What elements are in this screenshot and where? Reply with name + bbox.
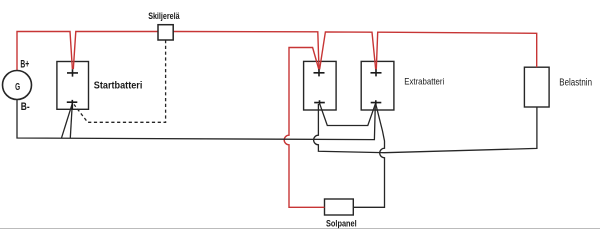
solar panel Solpanel box xyxy=(325,199,354,215)
wire: Extrabatteri 2 minus to Solpanel, hop over line B xyxy=(354,104,385,208)
wire: Extrabatteri 1 plus to Extrabatteri 2 plus (red) xyxy=(320,32,376,70)
svg-text:B-: B- xyxy=(21,101,30,113)
bottom border artifact line xyxy=(0,227,600,230)
wire: Startbatteri minus diagonal to bus (left) xyxy=(62,104,73,138)
Startbatteri plus terminal xyxy=(67,69,78,76)
svg-text:Solpanel: Solpanel xyxy=(326,218,357,228)
wire: generator B- down, negative bus line A to Extrabatteri 2 minus xyxy=(17,100,375,140)
Extrabatteri 2 plus terminal xyxy=(371,69,382,76)
wire: Startbatteri plus to Skiljerelä (red) xyxy=(73,32,158,70)
wire: Extrabatteri 1 minus to Belastnin bottom, hop over bus A xyxy=(314,104,537,153)
generator G circle xyxy=(3,71,32,100)
battery Startbatteri box xyxy=(57,62,89,110)
svg-text:Startbatteri: Startbatteri xyxy=(94,81,143,92)
wire: Solpanel plus to Extrabatteri 1 plus, hop over negative bus (red) xyxy=(284,48,324,208)
Extrabatteri 1 plus terminal xyxy=(314,69,325,76)
battery Extrabatteri 2 box xyxy=(361,61,394,110)
Startbatteri minus terminal xyxy=(67,100,78,110)
wire: Startbatteri minus diagonal to bus (right) xyxy=(70,104,72,138)
load Belastnin box xyxy=(524,67,549,107)
wire: Skiljerelä control (dashed) to Startbatteri minus xyxy=(74,40,166,122)
relay Skiljerelä box xyxy=(158,25,173,40)
Extrabatteri 2 minus terminal xyxy=(371,100,382,104)
Extrabatteri 1 minus terminal xyxy=(314,100,325,104)
svg-text:Skiljerelä: Skiljerelä xyxy=(148,11,180,21)
wire: Extrabatteri 2 plus to Belastnin top (red) xyxy=(376,32,536,69)
wire: Skiljerelä to Extrabatteri 1 plus (red) xyxy=(173,32,319,70)
svg-text:G: G xyxy=(15,81,20,93)
svg-text:B+: B+ xyxy=(20,58,29,70)
wire: generator B+ to Startbatteri plus (red) xyxy=(17,32,72,71)
svg-text:Extrabatteri: Extrabatteri xyxy=(404,77,444,88)
svg-text:Belastnin: Belastnin xyxy=(559,77,592,88)
battery Extrabatteri 1 box xyxy=(304,61,337,110)
wire: link Extrabatteri 1 minus to Extrabatteri 2 minus xyxy=(320,104,376,126)
